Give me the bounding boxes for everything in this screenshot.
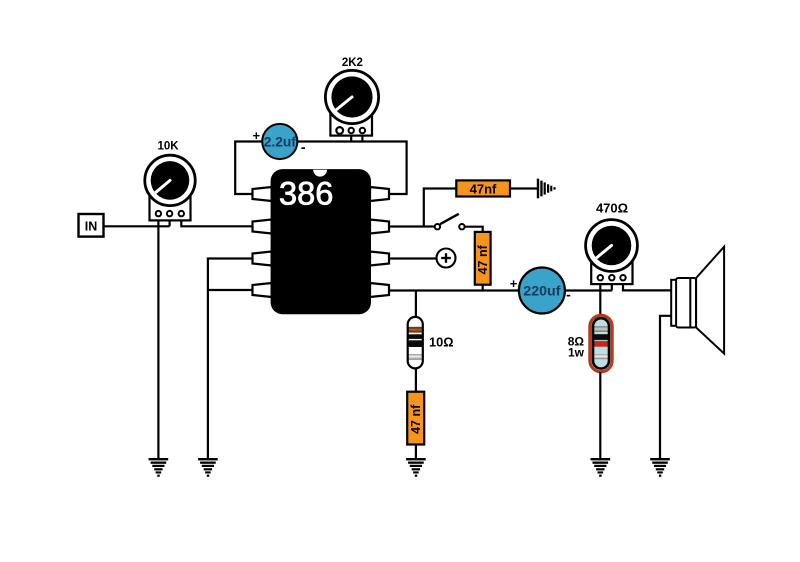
IC pin 6 (370, 252, 389, 266)
potentiometer VR3 470 (586, 220, 638, 285)
svg-text:IN: IN (85, 220, 98, 234)
wire: IC pin 7 to switch (389, 225, 435, 227)
speaker LS1 (671, 247, 724, 354)
svg-text:-: - (566, 287, 571, 303)
wire: R3 to ground (599, 372, 601, 459)
wire: IC pin 4 to left rail (208, 289, 253, 291)
IC pin 4 (253, 283, 272, 297)
svg-text:10Ω: 10Ω (429, 334, 454, 349)
wire: 470 pot right pin to speaker (623, 278, 671, 290)
wire: C2 to chassis ground (510, 187, 537, 189)
switch S1 (435, 214, 465, 230)
ground (below 10K pot) (149, 458, 169, 477)
svg-text:220uf: 220uf (523, 283, 560, 299)
svg-text:2K2: 2K2 (342, 57, 363, 69)
wire from IN box to 10K pot wiper (103, 225, 169, 227)
wire: junction up to C2 47nf (424, 189, 457, 227)
wire: 470 pot left pin down to R3 (599, 278, 601, 316)
wire: 2K2 middle pin stem (350, 131, 352, 142)
wire: R2 to C5 (415, 368, 417, 392)
IC pin 1 (253, 187, 272, 201)
IC pin 8 (370, 187, 389, 201)
ground (speaker) (650, 458, 670, 477)
IN box (79, 214, 104, 237)
resistor R2 10ohm (408, 317, 423, 369)
resistor R3 8ohm 1w (590, 315, 612, 371)
svg-text:386: 386 (279, 175, 333, 212)
potentiometer VR2 2K2 (325, 70, 378, 135)
svg-text:47 nf: 47 nf (476, 244, 490, 274)
ground (left rail) (198, 458, 218, 477)
potentiometer VR1 10K (145, 155, 195, 220)
wire: output junction down to R2 (415, 291, 417, 318)
capacitor C5 47nf (407, 392, 424, 445)
IC pin 2 (253, 220, 272, 234)
wire: 10K pot right pin to IC pin 2 (181, 214, 252, 226)
wire: IC pin 1 loop up to C1 2.2uf (235, 142, 262, 195)
wire: output rail IC pin 5 to C4 (389, 289, 519, 291)
capacitor C2 47nf (456, 180, 510, 196)
wire: C3 to output rail (482, 285, 484, 291)
svg-text:470Ω: 470Ω (596, 201, 628, 216)
capacitor C3 47nf (475, 232, 491, 285)
wire: 10K pot middle pin stem (169, 214, 171, 226)
svg-text:10K: 10K (157, 141, 179, 153)
ground (right of C2, rotated) (537, 179, 556, 199)
wire: IC pin 3 to left rail (208, 259, 253, 460)
IC pin 3 (253, 252, 272, 266)
svg-text:2.2uf: 2.2uf (264, 134, 297, 149)
wire: 10K pot left pin to ground (157, 214, 159, 459)
svg-text:+: + (510, 276, 518, 291)
wire: C5 to ground (415, 445, 417, 460)
svg-text:47 nf: 47 nf (409, 404, 423, 434)
wire: speaker return to ground (660, 316, 671, 459)
IC pin 7 (370, 220, 389, 234)
svg-text:47nf: 47nf (470, 181, 497, 196)
wire: 470 pot middle pin stem (611, 278, 613, 291)
svg-text:+: + (253, 128, 261, 143)
svg-text:1w: 1w (568, 346, 585, 360)
wire: switch to C3 (465, 227, 483, 232)
IC pin 5 (370, 283, 389, 297)
battery positive B1 (437, 249, 456, 268)
wire: 2K2 right pin stem (361, 131, 363, 142)
label 8ohm 1w (568, 335, 585, 360)
wire: C1 to 2K2 pins and down to IC pin 8 (297, 142, 407, 195)
ground (below R3) (591, 458, 611, 477)
ground (below C5) (406, 458, 426, 477)
wire: C4 to 470 pot (565, 289, 612, 291)
wire: IC pin 6 to battery (389, 257, 437, 259)
svg-text:-: - (301, 139, 306, 155)
capacitor C1 2.2uf (262, 124, 297, 159)
IC U1 386 (271, 169, 371, 314)
capacitor C4 220uf (519, 268, 565, 314)
